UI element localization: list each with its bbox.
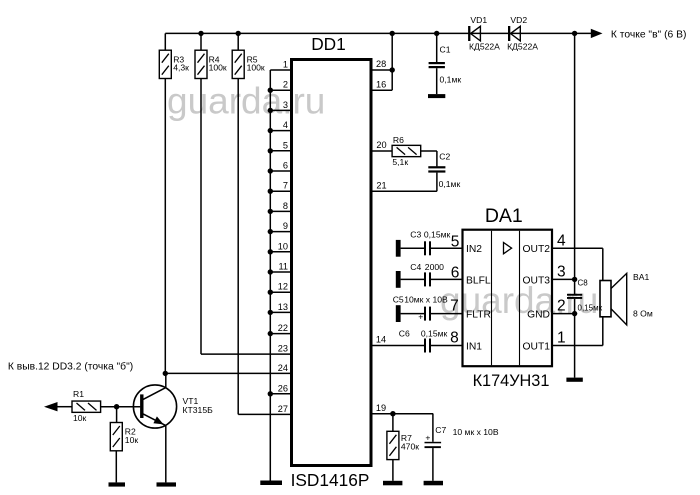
svg-text:10мк x 10В: 10мк x 10В <box>404 294 448 304</box>
wire R3 bottom to collector node <box>164 79 166 374</box>
capacitor C5 <box>401 313 424 315</box>
svg-text:ISD1416P: ISD1416P <box>291 470 370 490</box>
pin 6 DD1 <box>270 170 291 172</box>
capacitor C4 <box>401 278 424 280</box>
svg-text:C6: C6 <box>399 329 410 339</box>
pin 26 DD1 <box>270 393 291 395</box>
svg-text:8: 8 <box>283 201 288 211</box>
resistor R2 <box>116 407 118 423</box>
ground C3 <box>396 240 401 257</box>
wire emitter down <box>165 426 167 483</box>
junction C1 top <box>434 31 439 36</box>
svg-text:20: 20 <box>376 140 386 150</box>
svg-text:2: 2 <box>557 298 566 315</box>
svg-text:R1: R1 <box>73 389 84 399</box>
DA1 internal divider right <box>519 231 521 365</box>
svg-text:OUT3: OUT3 <box>523 275 551 286</box>
pin 19 DD1 <box>371 413 433 415</box>
pin 1 DD1 <box>270 69 291 71</box>
svg-text:C3: C3 <box>410 230 421 240</box>
node b junction <box>114 404 119 409</box>
pin 24 DD1 <box>165 372 291 374</box>
svg-text:2: 2 <box>283 80 288 90</box>
wire DD1 left bus <box>269 70 271 481</box>
svg-text:10: 10 <box>278 241 288 251</box>
capacitor C6 <box>424 339 426 353</box>
svg-text:9: 9 <box>283 221 288 231</box>
svg-text:5: 5 <box>451 233 460 250</box>
wire C6 to DA1 pin 8 <box>431 345 463 347</box>
junction R5 top <box>236 31 241 36</box>
op-amp U1: IC DD1 box <box>292 60 372 466</box>
svg-text:FLTR: FLTR <box>466 310 491 321</box>
svg-text:OUT2: OUT2 <box>523 244 551 255</box>
capacitor C8 <box>567 294 582 296</box>
junction R4 top <box>198 31 203 36</box>
speaker BA1 <box>600 281 611 317</box>
svg-text:КД522А: КД522А <box>469 41 500 51</box>
svg-text:16: 16 <box>376 79 386 89</box>
pin 5 DD1 <box>270 150 291 152</box>
pin 11 DD1 <box>270 271 291 273</box>
capacitor C2 <box>428 166 445 168</box>
wire C2 to pin 21 <box>436 173 438 192</box>
wire R6 to C2 <box>421 150 437 152</box>
svg-text:10 мк x 10В: 10 мк x 10В <box>453 427 499 437</box>
wire collector up <box>165 373 167 387</box>
diode VD2 <box>508 26 510 41</box>
svg-text:3: 3 <box>557 263 566 280</box>
svg-text:28: 28 <box>376 59 386 69</box>
svg-text:BLFL: BLFL <box>466 275 491 286</box>
svg-text:22: 22 <box>278 323 288 333</box>
pin 1 DA1 wire <box>552 345 603 347</box>
junction collector node <box>163 371 168 376</box>
wire +6V top rail <box>165 32 591 34</box>
svg-text:4: 4 <box>557 232 566 249</box>
resistor R1 <box>58 406 73 408</box>
svg-text:КД522А: КД522А <box>507 41 538 51</box>
svg-text:OUT1: OUT1 <box>523 341 551 352</box>
resistor R5 <box>237 33 239 50</box>
svg-text:3: 3 <box>283 100 288 110</box>
svg-text:14: 14 <box>376 335 386 345</box>
svg-text:C1: C1 <box>440 45 451 55</box>
ground rail <box>566 378 582 382</box>
svg-text:6: 6 <box>283 161 288 171</box>
resistor R4 <box>200 33 202 50</box>
wire R4 bottom to pin 23 <box>200 79 202 355</box>
pin 9 DD1 <box>270 231 291 233</box>
svg-text:К выв.12 DD3.2 (точка "б"): К выв.12 DD3.2 (точка "б") <box>8 361 133 373</box>
svg-text:21: 21 <box>376 181 386 191</box>
svg-text:0,15мк: 0,15мк <box>421 329 448 339</box>
arrow to DD3.2 <box>44 402 58 411</box>
svg-text:C4: C4 <box>410 262 421 272</box>
svg-text:0,1мк: 0,1мк <box>440 75 462 85</box>
svg-text:C7: C7 <box>435 425 446 435</box>
ground C7 <box>424 481 443 486</box>
svg-text:10к: 10к <box>125 435 139 445</box>
svg-text:C5: C5 <box>393 294 404 304</box>
svg-text:VD1: VD1 <box>470 15 487 25</box>
svg-text:24: 24 <box>278 363 288 373</box>
pin 3 DA1 wire <box>552 278 575 280</box>
pin 23 DD1 <box>201 353 292 355</box>
amp triangle DA1 <box>504 243 512 254</box>
svg-text:guarda.ru: guarda.ru <box>167 80 325 121</box>
svg-text:C2: C2 <box>439 151 450 161</box>
pin 4 DD1 <box>270 130 291 132</box>
wire pin28-16 to rail <box>391 33 393 90</box>
svg-text:+: + <box>425 432 430 442</box>
svg-text:2000: 2000 <box>425 262 444 272</box>
pin 28 DD1 <box>371 69 392 71</box>
wire 6V drop rail lower <box>574 299 576 378</box>
svg-text:DD1: DD1 <box>311 34 346 54</box>
transistor Q1: VT1 <box>133 385 176 428</box>
svg-text:19: 19 <box>376 403 386 413</box>
resistor R7 <box>392 414 394 432</box>
svg-text:C8: C8 <box>578 279 589 288</box>
wire 6V drop rail upper <box>574 33 576 294</box>
svg-text:IN1: IN1 <box>466 341 482 352</box>
svg-text:7: 7 <box>450 297 459 314</box>
junction pin28 rail <box>390 31 395 36</box>
svg-text:5,1к: 5,1к <box>392 157 408 167</box>
pin 14 DD1 <box>371 345 424 347</box>
svg-text:+: + <box>418 312 423 322</box>
ground R2 <box>109 482 126 486</box>
DA1 internal divider left <box>491 231 493 365</box>
resistor R6 <box>392 145 421 156</box>
ground VT1 emitter <box>157 482 177 486</box>
ground C5 <box>396 305 401 322</box>
svg-text:0,1мк: 0,1мк <box>439 179 461 189</box>
svg-text:0,15мк: 0,15мк <box>424 230 451 240</box>
svg-text:8: 8 <box>450 329 459 346</box>
pin 4 DA1 wire <box>552 247 603 249</box>
svg-text:4: 4 <box>283 120 288 130</box>
svg-text:КТ315Б: КТ315Б <box>183 405 214 415</box>
svg-text:8 Ом: 8 Ом <box>633 309 653 319</box>
pin 8 DD1 <box>270 210 291 212</box>
pin 2 DA1 wire <box>552 313 575 315</box>
svg-text:VD2: VD2 <box>510 15 527 25</box>
svg-text:10к: 10к <box>73 413 87 423</box>
pin 13 DD1 <box>270 311 291 313</box>
svg-text:1: 1 <box>557 330 566 347</box>
svg-text:470к: 470к <box>401 442 419 452</box>
svg-text:К174УН31: К174УН31 <box>473 372 550 390</box>
op-amp U2: IC DA1 box <box>463 230 553 367</box>
capacitor C1 <box>436 33 438 62</box>
arrow to point v <box>591 29 603 38</box>
pin 10 DD1 <box>270 251 291 253</box>
svg-text:К точке "в" (6 В): К точке "в" (6 В) <box>611 30 687 41</box>
svg-text:27: 27 <box>278 404 288 414</box>
pin 3 DD1 <box>270 109 291 111</box>
svg-text:13: 13 <box>278 302 288 312</box>
svg-text:1: 1 <box>283 60 288 70</box>
pin 16 DD1 <box>371 89 392 91</box>
junction pin2 GND <box>572 311 577 316</box>
svg-text:0,15мк: 0,15мк <box>578 304 603 313</box>
svg-text:GND: GND <box>527 310 550 321</box>
svg-text:BA1: BA1 <box>633 272 649 282</box>
resistor R3 <box>164 33 166 50</box>
wire R5 bottom to pin 27 <box>237 79 239 415</box>
svg-text:11: 11 <box>278 262 288 272</box>
ground left bus <box>260 481 282 486</box>
diode VD1 <box>468 26 470 41</box>
svg-text:26: 26 <box>278 383 288 393</box>
svg-text:R6: R6 <box>393 135 404 145</box>
pin 7 DD1 <box>270 190 291 192</box>
svg-text:23: 23 <box>278 344 288 354</box>
svg-text:100к: 100к <box>247 62 265 72</box>
pin 20 DD1 <box>371 150 392 152</box>
svg-text:4,3к: 4,3к <box>173 62 189 72</box>
capacitor C7 <box>432 414 434 442</box>
pin 27 DD1 <box>238 413 291 415</box>
junction pin3 OUT3 <box>572 277 577 282</box>
svg-text:7: 7 <box>283 181 288 191</box>
svg-text:12: 12 <box>278 282 288 292</box>
svg-text:6: 6 <box>451 264 460 281</box>
pin 22 DD1 <box>270 333 291 335</box>
junction 6V drop <box>572 31 577 36</box>
svg-text:DA1: DA1 <box>485 205 523 227</box>
pin 12 DD1 <box>270 291 291 293</box>
svg-text:5: 5 <box>283 140 288 150</box>
ground C1 <box>428 94 445 98</box>
svg-text:100к: 100к <box>209 62 227 72</box>
pin 2 DD1 <box>270 89 291 91</box>
ground C4 <box>396 271 401 288</box>
capacitor C3 <box>401 247 424 249</box>
ground R7 <box>383 481 402 486</box>
svg-text:IN2: IN2 <box>466 244 482 255</box>
